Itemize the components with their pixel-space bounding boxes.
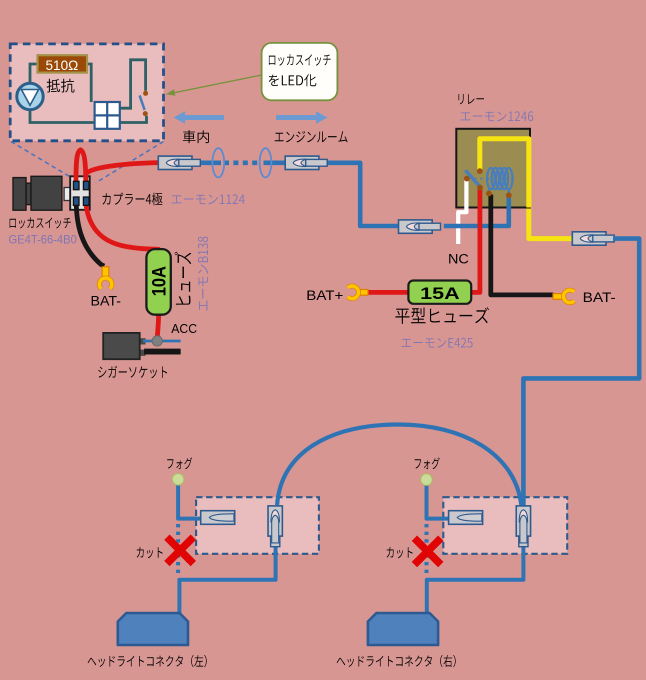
svg-text:10A: 10A <box>149 266 170 296</box>
svg-text:510Ω: 510Ω <box>46 58 79 73</box>
svg-text:BAT-: BAT- <box>583 289 616 305</box>
svg-text:GE4T-66-4B0: GE4T-66-4B0 <box>9 232 77 246</box>
svg-text:BAT-: BAT- <box>91 294 122 309</box>
svg-text:ACC: ACC <box>171 321 197 336</box>
svg-text:NC: NC <box>448 252 469 267</box>
svg-text:15A: 15A <box>420 284 460 303</box>
svg-text:BAT+: BAT+ <box>306 287 343 303</box>
